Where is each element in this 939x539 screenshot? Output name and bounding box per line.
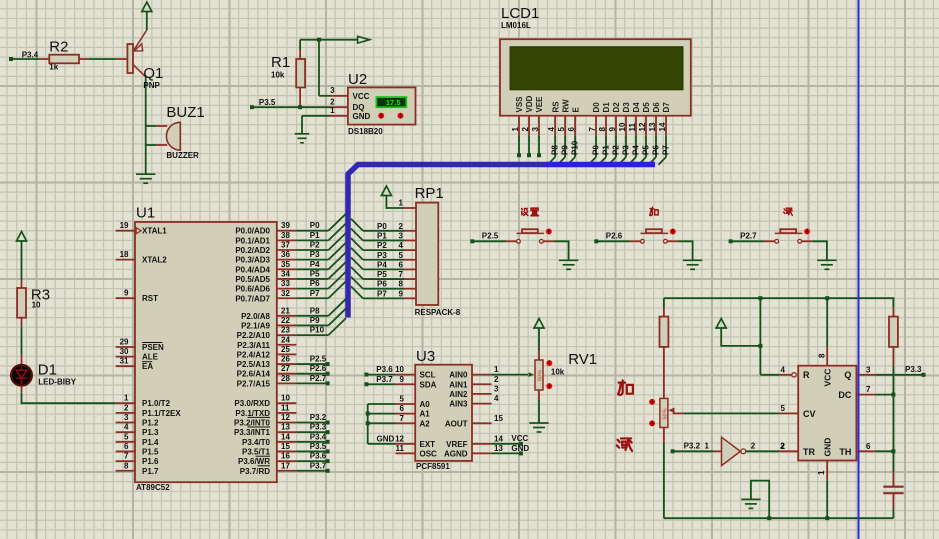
svg-text:P3: P3 [310, 250, 320, 259]
svg-text:11: 11 [281, 403, 290, 412]
svg-text:5: 5 [400, 395, 405, 404]
svg-text:12: 12 [395, 434, 404, 443]
svg-text:10: 10 [395, 365, 404, 374]
svg-text:23: 23 [281, 326, 290, 335]
svg-text:P1.6: P1.6 [142, 457, 159, 466]
svg-text:DS18B20: DS18B20 [348, 127, 383, 136]
svg-text:D3: D3 [622, 102, 631, 113]
svg-text:P3.7: P3.7 [310, 461, 327, 470]
svg-text:P2.2/A10: P2.2/A10 [237, 331, 271, 340]
svg-text:6: 6 [400, 404, 405, 413]
svg-text:3: 3 [866, 365, 871, 374]
svg-text:P9: P9 [561, 145, 570, 155]
svg-text:DC: DC [838, 390, 851, 400]
svg-text:12: 12 [638, 122, 647, 131]
svg-text:CV: CV [803, 409, 816, 419]
svg-text:P2.5: P2.5 [482, 232, 499, 241]
svg-text:P2.1/A9: P2.1/A9 [241, 321, 270, 330]
svg-text:2: 2 [780, 442, 785, 451]
svg-text:RS: RS [551, 101, 560, 113]
svg-text:4: 4 [494, 394, 499, 403]
svg-text:P2.7/A15: P2.7/A15 [237, 379, 271, 388]
svg-text:29: 29 [120, 338, 129, 347]
svg-text:2: 2 [399, 222, 404, 231]
svg-text:P2.5: P2.5 [310, 355, 327, 364]
svg-text:AOUT: AOUT [445, 419, 468, 428]
svg-text:27: 27 [281, 364, 290, 373]
svg-text:D1: D1 [38, 362, 57, 379]
svg-text:17: 17 [281, 461, 290, 470]
svg-text:25: 25 [281, 345, 290, 354]
svg-text:P2.3/A11: P2.3/A11 [237, 341, 270, 350]
svg-text:P0: P0 [377, 222, 387, 231]
svg-text:P1.4: P1.4 [142, 438, 159, 447]
svg-text:LED-BIBY: LED-BIBY [38, 377, 76, 386]
svg-text:P7: P7 [310, 289, 320, 298]
svg-text:P3.3/INT1: P3.3/INT1 [234, 428, 271, 437]
svg-text:16: 16 [281, 452, 290, 461]
svg-text:P0: P0 [310, 221, 320, 230]
svg-text:1: 1 [124, 394, 129, 403]
svg-text:22: 22 [281, 316, 290, 325]
svg-text:10k: 10k [551, 368, 565, 377]
svg-text:SDA: SDA [420, 380, 437, 389]
svg-text:A1: A1 [420, 410, 431, 419]
svg-text:P2: P2 [377, 241, 387, 250]
svg-text:5: 5 [780, 404, 785, 413]
svg-text:P8: P8 [310, 306, 320, 315]
svg-text:Q: Q [844, 370, 851, 380]
svg-text:D0: D0 [592, 102, 601, 113]
svg-text:TH: TH [839, 447, 851, 457]
svg-text:P4: P4 [632, 145, 641, 155]
svg-text:P3: P3 [377, 251, 387, 260]
svg-text:P1: P1 [310, 231, 320, 240]
svg-text:P2.5/A13: P2.5/A13 [237, 360, 271, 369]
svg-text:P3.0/RXD: P3.0/RXD [234, 399, 270, 408]
svg-text:9: 9 [399, 289, 404, 298]
svg-text:P6: P6 [652, 145, 661, 155]
svg-text:11: 11 [396, 444, 405, 453]
svg-text:10: 10 [618, 122, 627, 131]
svg-text:AIN3: AIN3 [449, 400, 468, 409]
svg-text:SCL: SCL [420, 371, 436, 380]
svg-text:P1.0/T2: P1.0/T2 [142, 399, 171, 408]
svg-text:3: 3 [494, 384, 499, 393]
svg-text:38: 38 [281, 231, 290, 240]
svg-text:P3.5/T1: P3.5/T1 [242, 447, 271, 456]
svg-text:33: 33 [281, 279, 290, 288]
svg-text:U1: U1 [136, 205, 155, 222]
svg-text:15: 15 [494, 414, 503, 423]
svg-text:P3.2/INT0: P3.2/INT0 [234, 419, 271, 428]
svg-text:VCC: VCC [823, 369, 833, 387]
svg-text:VCC: VCC [511, 434, 528, 443]
svg-text:P0.2/AD2: P0.2/AD2 [235, 246, 270, 255]
svg-text:PNP: PNP [143, 81, 160, 90]
svg-text:50%: 50% [538, 370, 544, 381]
svg-text:AGND: AGND [444, 449, 468, 458]
svg-text:36: 36 [281, 250, 290, 259]
svg-text:P1.1/T2EX: P1.1/T2EX [142, 409, 181, 418]
svg-text:13: 13 [281, 423, 290, 432]
svg-text:VEE: VEE [535, 96, 544, 113]
svg-text:P4: P4 [310, 260, 320, 269]
svg-text:P7: P7 [662, 145, 671, 155]
svg-text:7: 7 [124, 452, 129, 461]
svg-text:P3.6/WR: P3.6/WR [238, 457, 270, 466]
svg-text:7: 7 [866, 385, 871, 394]
svg-text:32: 32 [281, 289, 290, 298]
svg-text:P6: P6 [310, 279, 320, 288]
svg-text:P3.7: P3.7 [376, 375, 393, 384]
svg-text:LM016L: LM016L [501, 21, 531, 30]
svg-text:AIN2: AIN2 [449, 390, 468, 399]
svg-text:1: 1 [817, 470, 826, 475]
svg-text:XTAL1: XTAL1 [142, 227, 167, 236]
svg-text:35: 35 [281, 260, 290, 269]
svg-text:P2: P2 [612, 145, 621, 155]
svg-text:P1.7: P1.7 [142, 467, 159, 476]
svg-text:15: 15 [281, 442, 290, 451]
svg-text:P5: P5 [642, 145, 651, 155]
svg-text:OSC: OSC [420, 449, 438, 458]
svg-text:8: 8 [598, 127, 607, 132]
svg-text:P3: P3 [622, 145, 631, 155]
svg-text:EXT: EXT [420, 440, 436, 449]
svg-text:5: 5 [399, 251, 404, 260]
svg-text:GND: GND [377, 434, 395, 443]
svg-text:6: 6 [567, 127, 576, 132]
svg-text:A2: A2 [420, 419, 431, 428]
svg-text:P10: P10 [310, 326, 325, 335]
svg-text:RW: RW [561, 99, 570, 113]
svg-text:RESPACK-8: RESPACK-8 [415, 308, 461, 317]
svg-text:P2: P2 [310, 241, 320, 250]
svg-text:P2.6: P2.6 [310, 364, 327, 373]
svg-text:R2: R2 [49, 39, 68, 56]
svg-text:PCF8591: PCF8591 [416, 462, 450, 471]
svg-text:2: 2 [751, 442, 756, 451]
svg-text:D6: D6 [652, 102, 661, 113]
svg-text:P3.3: P3.3 [310, 423, 327, 432]
svg-text:34: 34 [281, 269, 290, 278]
svg-text:3: 3 [330, 86, 335, 95]
svg-text:PSEN: PSEN [142, 343, 164, 352]
svg-text:P5: P5 [310, 269, 320, 278]
svg-text:10: 10 [281, 394, 290, 403]
svg-text:5: 5 [124, 432, 129, 441]
svg-text:9: 9 [124, 289, 129, 298]
svg-text:P3.4/T0: P3.4/T0 [242, 438, 271, 447]
svg-text:31: 31 [120, 357, 129, 366]
svg-text:GND: GND [511, 444, 529, 453]
svg-text:14: 14 [281, 432, 290, 441]
svg-text:7: 7 [588, 127, 597, 132]
svg-text:P2.6: P2.6 [606, 232, 623, 241]
svg-text:P8: P8 [551, 145, 560, 155]
svg-text:4: 4 [780, 365, 785, 374]
svg-text:D4: D4 [632, 102, 641, 113]
svg-text:P1.5: P1.5 [142, 447, 159, 456]
svg-text:AIN1: AIN1 [449, 380, 468, 389]
svg-text:EA: EA [142, 362, 153, 371]
svg-text:P4: P4 [377, 260, 387, 269]
svg-text:P3.7/RD: P3.7/RD [240, 467, 270, 476]
svg-text:VSS: VSS [515, 96, 524, 113]
svg-text:1k: 1k [49, 63, 58, 72]
svg-text:P0.1/AD1: P0.1/AD1 [235, 236, 270, 245]
svg-text:8: 8 [399, 280, 404, 289]
svg-text:P0: P0 [592, 145, 601, 155]
svg-text:GND: GND [353, 112, 371, 121]
svg-text:P1.3: P1.3 [142, 428, 159, 437]
svg-text:TR: TR [803, 447, 815, 457]
svg-text:R: R [803, 370, 810, 380]
svg-text:3: 3 [531, 127, 540, 132]
svg-text:30: 30 [120, 347, 129, 356]
svg-text:P3.6: P3.6 [376, 365, 393, 374]
svg-text:1: 1 [494, 365, 499, 374]
svg-text:P2.7: P2.7 [740, 232, 757, 241]
svg-text:D2: D2 [612, 102, 621, 113]
svg-text:18: 18 [120, 250, 129, 259]
svg-text:19: 19 [120, 221, 129, 230]
svg-text:P7: P7 [377, 289, 387, 298]
svg-text:XTAL2: XTAL2 [142, 256, 167, 265]
svg-text:P3.1/TXD: P3.1/TXD [235, 409, 270, 418]
svg-text:P0.3/AD3: P0.3/AD3 [235, 256, 270, 265]
svg-text:28: 28 [281, 374, 290, 383]
svg-text:RST: RST [142, 294, 158, 303]
svg-text:12: 12 [281, 413, 290, 422]
svg-text:P3.2: P3.2 [310, 413, 327, 422]
svg-text:P1.2: P1.2 [142, 419, 159, 428]
svg-text:50%: 50% [662, 408, 668, 419]
svg-text:U2: U2 [348, 71, 367, 88]
svg-text:2: 2 [494, 375, 499, 384]
svg-text:P1: P1 [602, 145, 611, 155]
svg-text:6: 6 [124, 442, 129, 451]
svg-text:24: 24 [281, 335, 290, 344]
svg-text:U3: U3 [416, 348, 435, 365]
svg-text:AIN0: AIN0 [449, 371, 468, 380]
svg-text:P0.5/AD5: P0.5/AD5 [235, 275, 270, 284]
svg-text:7: 7 [400, 414, 405, 423]
svg-text:9: 9 [400, 375, 405, 384]
svg-text:13: 13 [648, 122, 657, 131]
svg-text:10k: 10k [271, 71, 285, 80]
svg-text:14: 14 [658, 122, 667, 131]
svg-text:5: 5 [557, 127, 566, 132]
svg-text:8: 8 [818, 353, 827, 358]
svg-text:8: 8 [124, 461, 129, 470]
svg-text:13: 13 [494, 444, 503, 453]
svg-text:P3.3: P3.3 [905, 365, 922, 374]
svg-text:P2.6/A14: P2.6/A14 [237, 370, 271, 379]
svg-text:R1: R1 [271, 54, 290, 71]
svg-text:ALE: ALE [142, 353, 159, 362]
svg-text:1: 1 [511, 127, 520, 132]
svg-text:P3.5: P3.5 [310, 442, 327, 451]
svg-text:7: 7 [399, 270, 404, 279]
svg-text:6: 6 [866, 442, 871, 451]
svg-text:P9: P9 [310, 316, 320, 325]
svg-text:11: 11 [628, 122, 637, 131]
svg-text:E: E [571, 107, 580, 113]
svg-text:P2.7: P2.7 [310, 374, 327, 383]
svg-text:P0.7/AD7: P0.7/AD7 [235, 294, 270, 303]
svg-text:BUZ1: BUZ1 [166, 104, 204, 121]
svg-text:37: 37 [281, 241, 290, 250]
svg-text:VCC: VCC [353, 92, 370, 101]
svg-text:4: 4 [547, 127, 556, 132]
svg-text:1: 1 [704, 442, 709, 451]
svg-text:P6: P6 [377, 280, 387, 289]
svg-text:21: 21 [281, 306, 290, 315]
svg-text:P0.6/AD6: P0.6/AD6 [235, 285, 270, 294]
svg-text:P2.4/A12: P2.4/A12 [237, 350, 271, 359]
svg-text:DQ: DQ [353, 103, 365, 112]
svg-text:Q1: Q1 [143, 65, 163, 82]
svg-text:GND: GND [823, 438, 833, 457]
svg-text:RP1: RP1 [415, 185, 444, 202]
svg-text:D7: D7 [662, 102, 671, 113]
svg-text:P0.4/AD4: P0.4/AD4 [235, 265, 270, 274]
svg-text:17.5: 17.5 [386, 98, 401, 107]
svg-text:D5: D5 [642, 102, 651, 113]
svg-text:3: 3 [399, 231, 404, 240]
svg-text:2: 2 [521, 127, 530, 132]
svg-text:P3.6: P3.6 [310, 452, 327, 461]
svg-text:P2.0/A8: P2.0/A8 [241, 312, 270, 321]
svg-text:P3.4: P3.4 [310, 432, 327, 441]
svg-text:3: 3 [124, 413, 129, 422]
svg-text:P3.5: P3.5 [259, 98, 276, 107]
svg-text:26: 26 [281, 355, 290, 364]
svg-text:A0: A0 [420, 400, 431, 409]
svg-text:P10: P10 [571, 140, 580, 155]
svg-text:RV1: RV1 [568, 351, 597, 368]
svg-text:P5: P5 [377, 270, 387, 279]
svg-text:VDD: VDD [525, 95, 534, 112]
svg-text:1: 1 [330, 106, 335, 115]
svg-text:4: 4 [124, 423, 129, 432]
svg-text:14: 14 [494, 434, 503, 443]
svg-text:LCD1: LCD1 [501, 5, 539, 22]
svg-text:2: 2 [124, 403, 129, 412]
svg-text:39: 39 [281, 221, 290, 230]
svg-text:P1: P1 [377, 231, 387, 240]
svg-text:AT89C52: AT89C52 [136, 483, 170, 492]
svg-text:BUZZER: BUZZER [166, 151, 199, 160]
svg-text:10: 10 [32, 301, 41, 310]
svg-text:6: 6 [399, 260, 404, 269]
svg-text:4: 4 [399, 241, 404, 250]
svg-text:9: 9 [608, 127, 617, 132]
svg-text:P3.2: P3.2 [684, 442, 701, 451]
svg-text:VREF: VREF [446, 440, 467, 449]
svg-text:D1: D1 [602, 102, 611, 113]
svg-text:P0.0/AD0: P0.0/AD0 [235, 227, 270, 236]
svg-text:1: 1 [399, 199, 404, 208]
